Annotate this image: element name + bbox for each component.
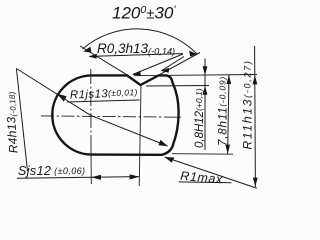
leader to left notch shoulder	[133, 54, 183, 74]
part outline	[52, 75, 178, 154]
svg-text:R11h13(-0,27): R11h13(-0,27)	[241, 59, 255, 149]
dimension 7,8 line	[228, 75, 229, 154]
dimension arc 120deg	[83, 29, 198, 54]
leader to right notch shoulder	[162, 57, 185, 71]
extension line top level	[134, 75, 257, 76]
arrowhead at bottom-right corner	[159, 140, 168, 147]
wire S right extension	[139, 86, 141, 186]
wire horizontal centerline (dash-dot)	[41, 116, 181, 117]
arrowhead on R4 arc	[57, 94, 67, 102]
main diagonal leader through centre (R1js13 / R4)	[16, 69, 167, 147]
svg-text:Sjs12 (±0,06): Sjs12 (±0,06)	[18, 164, 85, 178]
wire right V-leg extension	[159, 53, 201, 76]
wire left V-leg extension	[80, 46, 128, 75]
S dimension line + text underline	[17, 177, 139, 179]
wire vertical axis (dash-dot)	[90, 69, 92, 150]
dimension 0,8 line	[204, 59, 206, 151]
R4 dimension line	[16, 69, 27, 172]
wire S left extension	[90, 150, 92, 184]
R1max leader	[165, 157, 258, 188]
extension line notch vertex level	[146, 85, 209, 88]
svg-text:7,8h11(-0,09): 7,8h11(-0,09)	[216, 76, 230, 146]
extension line bottom level	[172, 153, 233, 156]
dimension R11 line	[254, 46, 257, 187]
